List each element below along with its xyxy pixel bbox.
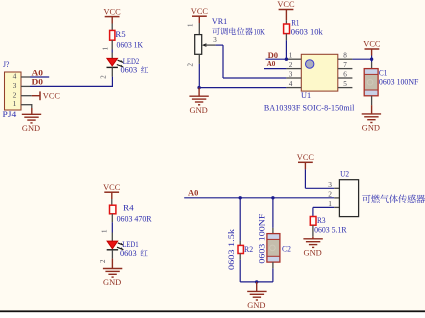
resistor R3 [310,217,316,226]
power VCC above VR1 [191,6,208,23]
node A0 wire at U1 pin 2 [264,59,286,69]
svg-text:A0: A0 [188,189,198,198]
node D0 wire from pin 3 to LED2 [30,77,112,87]
svg-text:1: 1 [328,199,332,208]
svg-text:R3: R3 [317,216,326,225]
junction at U1 pin 1 [285,58,288,61]
svg-text:7: 7 [343,61,347,69]
power VCC at pin 2 [32,90,60,100]
wire C1 to ground [371,96,373,105]
svg-text:R5: R5 [115,30,125,39]
node A0 (wire from pin 4) [30,68,49,77]
svg-text:0603 100NF: 0603 100NF [257,213,266,263]
svg-text:2: 2 [13,90,17,99]
svg-text:2: 2 [186,63,194,67]
power VCC above C1 [363,39,380,56]
value kediao potentiometer 10K [212,27,265,36]
LED1 diode symbol [107,241,124,250]
pin 2 of LED1 [99,250,112,263]
pin 1 of VR1 [186,23,199,35]
value 0603 red [121,65,149,74]
capacitor C2 [267,234,280,263]
junction at bottom ground node [255,280,258,283]
value combustible gas sensor [362,195,425,204]
potentiometer VR1 body [195,35,202,55]
svg-text:2: 2 [328,190,332,199]
pin 5 of U1 [338,80,353,88]
sensor U2 body [339,180,358,217]
svg-text:4: 4 [13,72,17,81]
resistor R5 [110,30,115,40]
svg-text:R1: R1 [291,18,299,27]
pin 1 of LED1 [100,214,112,241]
pin 2 of LED2 [100,67,113,78]
svg-text:0603 5.1R: 0603 5.1R [314,226,347,235]
svg-text:0603 470R: 0603 470R [117,215,153,224]
svg-text:C1: C1 [379,69,388,78]
ground below LED1 [103,259,122,288]
pin 4 of U1 [286,80,301,88]
node D0 wire at U1 pin 1 [266,51,287,60]
svg-text:VCC: VCC [43,90,60,100]
svg-text:VCC: VCC [363,39,380,49]
svg-text:GND: GND [247,300,265,310]
ground at J? pin 1 [22,108,41,133]
svg-text:VCC: VCC [277,0,294,9]
wire VCC to R1 [285,20,287,24]
pin 1 of U1 [286,52,301,60]
wire bottom node R2-C2 [240,281,273,283]
svg-text:GND: GND [362,123,380,133]
junction at R2 top [239,196,242,199]
sheet border bottom [0,310,425,313]
svg-text:0603 1.5k: 0603 1.5k [227,228,236,270]
svg-text:J?: J? [3,60,10,69]
svg-text:0603 10k: 0603 10k [291,28,324,37]
svg-text:2: 2 [99,259,107,263]
pin 2 of U2 [328,190,339,199]
connector J? (PJ4) [3,60,22,119]
svg-text:3: 3 [328,180,332,189]
svg-text:GND: GND [22,123,40,133]
wire VCC to junction [371,56,373,63]
pin 2 of J? [13,90,32,99]
wire U2 pin1 to R3 [312,207,314,216]
svg-text:3: 3 [213,36,217,44]
wire C2 to bottom node [272,262,274,282]
wire A0 to R2 [239,198,241,246]
resistor R1 [284,24,290,34]
svg-text:1: 1 [100,229,108,233]
pin 2 of VR1 [186,54,199,66]
pin 3 of U2 [328,180,339,189]
svg-text:VCC: VCC [191,6,208,16]
wire R3 to ground [312,225,314,237]
svg-text:VCC: VCC [297,152,314,162]
pin 1 of J? [13,99,32,108]
svg-text:R2: R2 [244,245,253,254]
svg-text:3: 3 [289,70,293,78]
power VCC above R1 [277,0,294,20]
svg-text:0603: 0603 [120,249,137,258]
svg-text:VCC: VCC [104,6,121,16]
power VCC above R5 [104,6,121,23]
svg-text:2: 2 [289,61,293,69]
svg-text:4: 4 [289,80,293,88]
pin 3 wiper of VR1 [202,36,217,47]
svg-text:BA10393F SOIC-8-150mil: BA10393F SOIC-8-150mil [264,104,355,113]
wire wiper to U1 pin 3 [216,45,287,78]
svg-text:U1: U1 [301,91,311,100]
wire A0 to C2 [272,198,274,234]
svg-text:1: 1 [102,47,110,51]
junction at C1/VCC/pin8 [370,58,373,61]
svg-text:C2: C2 [282,245,291,254]
svg-text:VR1: VR1 [212,17,227,26]
ground bottom center [247,282,266,310]
wire VR1 pin2 down to junction [198,64,200,88]
junction at VR1 ground node [197,86,200,89]
svg-text:0603 100NF: 0603 100NF [379,77,419,86]
svg-text:10K: 10K [254,27,265,36]
svg-text:A0: A0 [32,68,44,77]
resistor R2 [238,245,243,253]
pin 1 of U2 [313,199,340,208]
svg-text:2: 2 [100,75,108,79]
ground below C1 [362,105,381,132]
svg-text:0603: 0603 [121,65,138,74]
svg-text:1: 1 [186,23,194,27]
pin 2 of U1 [286,61,301,69]
pin 1 of LED2 [102,40,113,58]
svg-text:U2: U2 [340,170,349,179]
svg-text:A0: A0 [267,59,276,68]
wire R2 to bottom node [239,254,241,282]
pin 3 of J? [13,81,30,90]
ground below R3 [303,237,322,258]
wire R1 to D0 node [285,34,287,60]
svg-text:0603 1K: 0603 1K [117,40,144,49]
op-amp U1 BA10393F body [301,54,338,91]
resistor R4 [110,205,116,214]
pin 3 of U1 [286,70,301,78]
wire junction to C1 [371,62,373,69]
svg-text:GND: GND [103,277,121,287]
svg-text:VCC: VCC [103,182,120,192]
svg-text:D0: D0 [32,78,44,87]
pin 8 of U1 [338,52,353,60]
pin 7 of U1 [338,61,353,69]
wire U1 pin 8 to VCC/C1 [352,58,371,60]
wire VCC to R5 [111,24,113,31]
wire junction to U1 pin 4 [199,87,286,89]
svg-text:GND: GND [304,247,322,257]
svg-text:5: 5 [343,80,347,88]
svg-text:1: 1 [289,52,293,60]
svg-text:GND: GND [190,105,208,115]
junction at C2 top [271,196,274,199]
power VCC above U2 [297,152,314,169]
capacitor C1 [364,69,378,96]
node A0 bottom wire [184,189,334,198]
pin 4 of J? [13,72,30,81]
ground below VR1 [189,88,208,115]
value 0603 red [120,249,148,258]
svg-text:R4: R4 [123,203,134,212]
svg-text:1: 1 [13,99,17,108]
pin 6 of U1 [338,70,353,78]
svg-text:3: 3 [13,81,17,90]
wire VCC to U2 pin 3 [305,169,334,188]
power VCC above R4 [103,182,120,199]
svg-text:PJ4: PJ4 [3,110,17,119]
LED2 diode symbol [107,58,124,67]
svg-text:6: 6 [343,70,347,78]
svg-text:8: 8 [343,52,347,60]
wire VCC to R4 [111,199,113,205]
